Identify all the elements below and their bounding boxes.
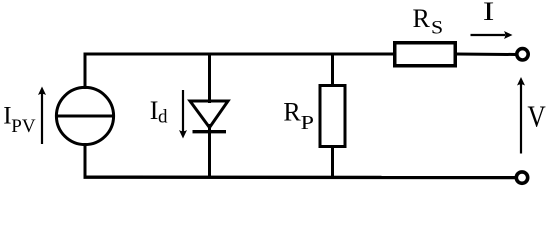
wire top rail right segment (R_S to terminal) bbox=[456, 53, 516, 57]
wire diode branch lower bbox=[208, 124, 211, 179]
wire top rail left segment bbox=[84, 53, 395, 56]
svg-text:V: V bbox=[527, 99, 546, 134]
diode triangle bbox=[190, 101, 228, 128]
terminal bottom (open circle) bbox=[516, 172, 527, 183]
label R_S bbox=[413, 4, 444, 38]
wire R_P branch upper bbox=[331, 53, 334, 87]
wire bottom rail bbox=[84, 175, 516, 179]
label I_PV bbox=[3, 103, 36, 137]
svg-text:I: I bbox=[483, 0, 494, 26]
svg-text:R: R bbox=[283, 97, 301, 126]
terminal top (open circle) bbox=[517, 49, 528, 60]
arrow I_PV direction (up) bbox=[38, 87, 46, 145]
resistor R_P body bbox=[320, 86, 345, 147]
svg-text:PV: PV bbox=[11, 116, 36, 137]
label R_P bbox=[283, 97, 314, 133]
arrow I direction (right) bbox=[471, 31, 513, 39]
svg-text:d: d bbox=[158, 107, 168, 128]
wire left branch lower bbox=[84, 143, 87, 179]
arrow V direction (up) bbox=[517, 77, 525, 154]
resistor R_S body bbox=[395, 43, 456, 66]
label I_d bbox=[150, 96, 168, 128]
current source I_PV symbol circle bbox=[56, 87, 113, 144]
wire R_P branch lower bbox=[331, 146, 334, 179]
wire diode branch upper bbox=[208, 53, 211, 104]
diode cathode bar bbox=[193, 130, 227, 133]
arrow I_d direction (down) bbox=[179, 90, 187, 139]
current source chord bar bbox=[56, 115, 113, 118]
wire left branch upper bbox=[84, 53, 87, 90]
svg-text:P: P bbox=[301, 111, 314, 134]
svg-text:R: R bbox=[413, 4, 431, 33]
svg-text:S: S bbox=[431, 18, 443, 38]
